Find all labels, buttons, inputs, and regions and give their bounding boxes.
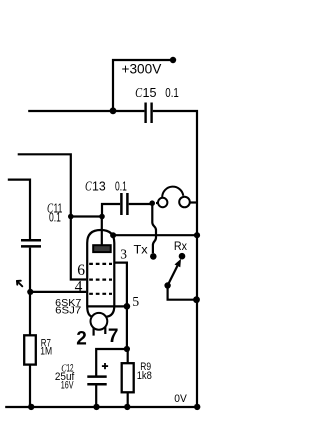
svg-text:16V: 16V (61, 380, 74, 392)
svg-text:Tx: Tx (134, 245, 148, 257)
svg-text:7: 7 (108, 326, 119, 347)
svg-text:+300V: +300V (122, 61, 163, 76)
svg-text:0.1: 0.1 (115, 179, 127, 194)
svg-text:Rx: Rx (174, 241, 187, 253)
svg-text:C: C (135, 86, 142, 101)
svg-text:15: 15 (143, 85, 157, 100)
svg-text:2: 2 (76, 328, 87, 349)
svg-text:4: 4 (75, 278, 83, 295)
svg-text:5: 5 (132, 294, 139, 309)
svg-text:3: 3 (120, 247, 127, 262)
svg-text:1M: 1M (40, 346, 52, 358)
svg-text:0.1: 0.1 (49, 210, 61, 225)
svg-text:0V: 0V (174, 393, 187, 405)
svg-text:6SJ7: 6SJ7 (55, 306, 81, 317)
svg-text:0.1: 0.1 (165, 85, 179, 100)
svg-text:6: 6 (77, 262, 85, 279)
svg-text:C: C (85, 180, 92, 195)
svg-text:13: 13 (92, 179, 106, 194)
svg-text:1k8: 1k8 (137, 370, 152, 382)
